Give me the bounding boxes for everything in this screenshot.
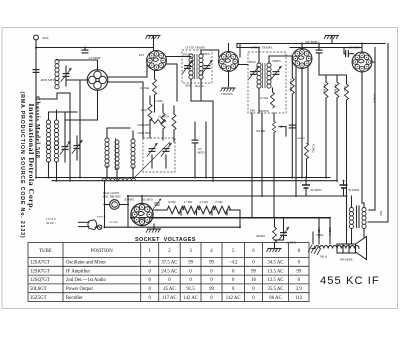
svg-text:Power Output: Power Output <box>66 287 93 292</box>
svg-text:12SQ7GT: 12SQ7GT <box>30 278 50 283</box>
svg-text:455 KC IF: 455 KC IF <box>320 275 380 287</box>
svg-text:International Detrola Corp.: International Detrola Corp. <box>27 104 36 211</box>
svg-text:SPEAKER: SPEAKER <box>340 259 353 262</box>
svg-text:2nd Det.—1st Audio: 2nd Det.—1st Audio <box>66 278 106 283</box>
svg-text:.0002 MFD: .0002 MFD <box>40 78 56 82</box>
svg-text:99: 99 <box>251 269 256 274</box>
svg-text:.002 MFD: .002 MFD <box>141 199 153 202</box>
svg-text:Rectifier: Rectifier <box>66 296 83 301</box>
svg-text:4.7 MΩ: 4.7 MΩ <box>184 201 192 204</box>
svg-text:2000Ω: 2000Ω <box>256 234 265 238</box>
svg-text:30 MFD: 30 MFD <box>348 188 360 192</box>
svg-text:24.5 AC: 24.5 AC <box>161 269 177 274</box>
svg-text:.05 MFD: .05 MFD <box>373 93 376 103</box>
svg-text:12SK7GT: 12SK7GT <box>30 269 50 274</box>
svg-text:112: 112 <box>295 296 303 301</box>
svg-text:BLACK: BLACK <box>328 227 331 236</box>
svg-text:CHASSIS: CHASSIS <box>221 93 233 96</box>
svg-text:4.7 MΩ: 4.7 MΩ <box>200 201 208 204</box>
svg-text:ANT.: ANT. <box>42 36 49 40</box>
svg-text:91.5: 91.5 <box>186 287 195 292</box>
svg-text:.00025 MMF: .00025 MMF <box>137 132 151 135</box>
svg-text:45 Ω: 45 Ω <box>343 86 346 91</box>
svg-text:BAT. BROWN: BAT. BROWN <box>103 195 121 199</box>
svg-text:12SA7GT: 12SA7GT <box>30 261 50 266</box>
svg-text:SWITCH: SWITCH <box>97 217 106 219</box>
svg-text:Oscillator and Mixer: Oscillator and Mixer <box>66 261 106 266</box>
svg-text:117 AC: 117 AC <box>162 296 177 301</box>
svg-text:47 MΩ: 47 MΩ <box>260 97 268 100</box>
svg-text:10 MΩ: 10 MΩ <box>215 201 223 204</box>
svg-text:TUBE: TUBE <box>39 249 52 254</box>
svg-text:470Ω: 470Ω <box>141 109 147 112</box>
svg-text:40 MFD: 40 MFD <box>311 188 323 192</box>
svg-text:37.5 AC: 37.5 AC <box>161 261 177 266</box>
svg-text:BLUE: BLUE <box>249 61 256 64</box>
svg-text:500 MΩ: 500 MΩ <box>256 130 265 133</box>
svg-text:.0004 MMF: .0004 MMF <box>137 124 150 127</box>
svg-text:.5 MEG: .5 MEG <box>155 100 163 103</box>
svg-text:4 x 2.2 MΩ: 4 x 2.2 MΩ <box>289 79 292 91</box>
svg-text:IF Amplifier: IF Amplifier <box>66 269 91 274</box>
svg-text:4.5 MΩ: 4.5 MΩ <box>312 144 315 152</box>
svg-text:35Z5GT: 35Z5GT <box>30 296 47 301</box>
svg-text:35.5 AC: 35.5 AC <box>268 287 284 292</box>
svg-text:13.5 AC: 13.5 AC <box>268 269 284 274</box>
svg-text:BLU: BLU <box>379 211 382 216</box>
svg-text:BLACK: BLACK <box>195 85 204 88</box>
svg-text:142 AC: 142 AC <box>183 296 198 301</box>
svg-text:16: 16 <box>251 278 256 283</box>
svg-text:−4.2: −4.2 <box>229 261 238 266</box>
svg-text:POSITION: POSITION <box>91 249 113 254</box>
svg-text:BLUE: BLUE <box>183 54 190 57</box>
svg-text:KEY: KEY <box>139 54 144 57</box>
svg-text:RED: RED <box>250 110 255 113</box>
svg-text:12.5 AC: 12.5 AC <box>268 278 284 283</box>
svg-text:34.5 AC: 34.5 AC <box>268 261 284 266</box>
svg-text:RED: RED <box>186 85 191 88</box>
svg-text:50L6GT: 50L6GT <box>30 287 47 292</box>
svg-text:MFD: MFD <box>198 151 206 155</box>
svg-text:(RMA PRODUCTION SOURCE CODE No: (RMA PRODUCTION SOURCE CODE No. 2133) <box>19 92 25 239</box>
svg-text:YELLOW: YELLOW <box>317 227 320 238</box>
svg-text:470 MΩ: 470 MΩ <box>334 84 337 93</box>
svg-text:142 AC: 142 AC <box>226 296 241 301</box>
svg-text:.05MFD: .05MFD <box>297 137 306 140</box>
svg-text:3.9: 3.9 <box>296 287 303 292</box>
svg-text:2.2 MMF: 2.2 MMF <box>89 56 101 60</box>
svg-text:86 AC: 86 AC <box>269 296 281 301</box>
svg-text:390 Ω: 390 Ω <box>320 256 327 259</box>
svg-text:1ST IF TRANS.: 1ST IF TRANS. <box>185 46 206 50</box>
svg-text:470 MΩ: 470 MΩ <box>323 84 326 93</box>
svg-text:GREEN: GREEN <box>201 53 210 56</box>
svg-text:220 MMF: 220 MMF <box>305 40 318 44</box>
svg-text:99: 99 <box>188 261 193 266</box>
svg-text:.05 MFD: .05 MFD <box>124 199 134 202</box>
svg-text:99: 99 <box>209 261 214 266</box>
svg-text:99: 99 <box>209 287 214 292</box>
svg-text:50 MΩ: 50 MΩ <box>168 201 176 204</box>
svg-text:GREEN: GREEN <box>272 60 281 63</box>
svg-text:.05 MEGS: .05 MEGS <box>158 116 170 119</box>
svg-text:22 MΩ: 22 MΩ <box>140 86 150 90</box>
svg-text:99: 99 <box>296 269 301 274</box>
svg-text:50-60 ~: 50-60 ~ <box>46 221 56 225</box>
svg-text:BROWN: BROWN <box>259 110 269 113</box>
svg-text:.02 MFD: .02 MFD <box>348 46 360 50</box>
svg-text:45 AC: 45 AC <box>163 287 175 292</box>
svg-text:.05 MFD: .05 MFD <box>109 221 118 224</box>
